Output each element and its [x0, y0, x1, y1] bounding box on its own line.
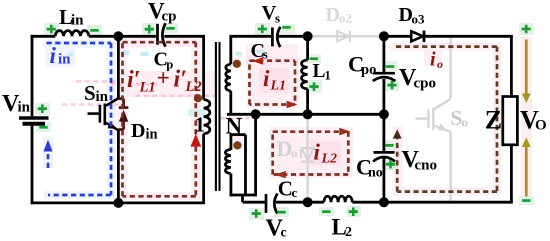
diode Do2 (inactive, gray): [337, 31, 350, 42]
plus L2: [349, 207, 358, 216]
svg-text:D: D: [131, 120, 145, 142]
svg-text:no: no: [368, 166, 383, 181]
plus Cc: [252, 209, 261, 218]
svg-text:2: 2: [345, 225, 352, 240]
minus Vcp: [166, 27, 174, 30]
svg-text:1: 1: [195, 113, 206, 137]
svg-text:s: s: [275, 11, 280, 26]
wire gray segment of top rail through Do2: [307, 35, 384, 37]
wire gray branch of So: [435, 36, 451, 202]
svg-text:L2: L2: [321, 152, 338, 167]
arrow i_in (blue): [44, 140, 53, 152]
wire secondary top branch: [229, 36, 232, 64]
node junction top Cpo: [379, 31, 389, 41]
minus Vs: [282, 26, 290, 29]
svg-text:L1: L1: [139, 80, 156, 96]
svg-text:p: p: [166, 58, 173, 72]
plus Vin: [38, 104, 47, 113]
plus L1: [309, 82, 318, 91]
transistor Sin: [88, 98, 119, 130]
wire bottom rail secondary: [243, 201, 266, 204]
polarity dot secondary upper: [233, 60, 241, 68]
wire Cno branch: [382, 114, 385, 151]
arrow i_L1 top-left: [252, 57, 263, 65]
label i'L1 + i'L2 (maroon): [127, 66, 202, 96]
label i_L2 (maroon): [314, 140, 338, 167]
svg-text:S: S: [84, 81, 96, 105]
wire bottom rail primary side: [31, 201, 205, 204]
minus Cc: [277, 211, 285, 214]
svg-text:S: S: [451, 106, 463, 130]
wire Cpo branch: [382, 36, 385, 72]
minus Cpo: [386, 65, 394, 68]
battery Vin: [19, 118, 49, 124]
svg-text:cp: cp: [162, 9, 177, 25]
svg-text:D: D: [326, 4, 340, 26]
wire top rail secondary: [229, 35, 271, 38]
node junction mid Cpo/Cno: [379, 109, 389, 119]
loop i_L1 (dark red dashed): [250, 61, 296, 105]
svg-text:N: N: [226, 114, 243, 139]
node junction top L1: [303, 31, 313, 41]
label So (gray): [451, 106, 469, 130]
svg-text:Z: Z: [485, 106, 502, 135]
wire mid rail: [227, 113, 384, 116]
plus Cno: [386, 160, 395, 169]
svg-text:O: O: [535, 118, 547, 134]
loop i_L2 (dark red dashed): [273, 132, 349, 175]
halo around i_L2 loop: [269, 127, 353, 178]
wire L1 branch: [306, 36, 309, 60]
svg-text:in: in: [18, 100, 31, 116]
svg-text:L1: L1: [270, 79, 287, 94]
diode Din (body diode of Sin): [118, 99, 128, 130]
arrow Vo bottom (olive): [522, 138, 531, 197]
svg-text:L2: L2: [185, 79, 202, 95]
svg-text:1: 1: [325, 69, 331, 83]
wire primary branch: [202, 36, 205, 99]
svg-text:i: i: [314, 140, 321, 165]
node junction bottom Do1: [303, 197, 313, 207]
transformer core: [216, 42, 220, 191]
polarity dot secondary lower: [233, 141, 241, 149]
svg-text:c: c: [281, 226, 287, 241]
svg-text:po: po: [361, 62, 376, 78]
plus Lin: [47, 25, 56, 34]
plus Vs: [258, 25, 267, 34]
svg-text:i: i: [430, 49, 436, 71]
svg-text:in: in: [96, 89, 109, 105]
loop i_in (blue dashed): [47, 43, 112, 195]
diode Do1 (inactive, gray): [301, 148, 314, 162]
halo around i_L1 loop: [247, 57, 299, 108]
svg-text:o: o: [462, 115, 469, 130]
node junction bottom Cno: [379, 197, 389, 207]
minus L1: [310, 57, 318, 60]
svg-text:i′: i′: [127, 67, 140, 93]
minus Cno: [385, 144, 393, 147]
arrow i_L2 bottom-left: [275, 171, 286, 179]
minus Vin: [39, 126, 47, 129]
svg-text:i: i: [50, 43, 57, 68]
svg-text:o2: o2: [339, 11, 352, 26]
loop i'L1+i'L2 (dark red dashed): [123, 42, 196, 196]
plus Vcp: [145, 25, 154, 34]
label i_L1 (maroon): [263, 66, 286, 94]
capacitor Cc (Vc): [266, 194, 277, 214]
wire Z branch: [510, 36, 513, 97]
wire top rail left: [31, 35, 56, 38]
arrow i'L1+i'L2 (red): [191, 134, 202, 147]
label Do1 (gray): [277, 136, 305, 161]
transformer secondary lower winding N: [225, 150, 230, 174]
svg-text:s: s: [263, 47, 268, 62]
diode Do3: [411, 31, 424, 42]
svg-text:cno: cno: [415, 158, 438, 174]
label Do2 (gray): [326, 4, 353, 26]
polarity dot primary: [194, 94, 202, 102]
svg-text:in: in: [146, 127, 158, 143]
svg-text:o: o: [437, 57, 443, 71]
inductor L2: [324, 196, 352, 202]
halo around i_o loop: [391, 36, 532, 198]
node junction mid N: [251, 109, 261, 119]
wire Sin branch vertical: [117, 36, 120, 98]
minus Lin: [90, 29, 98, 32]
svg-text:cpo: cpo: [414, 76, 437, 92]
plus Cpo: [387, 81, 396, 90]
transformer primary winding: [204, 100, 210, 134]
transistor So (inactive, gray): [416, 108, 451, 132]
wire gray branch of Do1: [306, 114, 308, 202]
node junction bottom Sin: [113, 198, 123, 208]
minus Vo: [522, 199, 530, 202]
svg-text:o1: o1: [291, 146, 304, 161]
loop i_o (dark red dashed): [396, 47, 497, 192]
arrow i_L2 top-right: [339, 128, 350, 136]
transformer secondary upper winding: [226, 64, 231, 91]
capacitor Cp (Vcp): [158, 23, 166, 46]
capacitor Cpo (Vcpo): [373, 73, 396, 81]
svg-text:c: c: [292, 185, 298, 200]
inductor L1: [301, 60, 307, 89]
pale green halos behind polarity marks: [35, 23, 534, 220]
pink ghost dashed artifacts: [62, 82, 250, 119]
minus L2: [322, 210, 330, 213]
svg-text:i: i: [263, 66, 270, 91]
load Z: [503, 97, 518, 145]
wire top rail output: [384, 35, 411, 38]
arrow i_L1 bottom-right: [287, 101, 298, 109]
node junction mid L1/Do1: [303, 109, 313, 119]
inductor Lin: [55, 31, 89, 37]
halo around i_in loop (blue artifacts): [43, 40, 116, 200]
svg-text:o3: o3: [412, 12, 426, 27]
svg-text:D: D: [277, 136, 293, 161]
arrow Vo top (olive): [522, 40, 531, 104]
label i_o (maroon): [430, 49, 443, 72]
wire left vertical (Vin branch): [31, 35, 34, 116]
polarity marks green: [38, 25, 531, 218]
halo around loop1 (pink artifacts): [118, 38, 298, 200]
capacitor Cno (Vcno): [373, 152, 395, 161]
cyan ghost artifacts: [68, 50, 265, 116]
svg-text:in: in: [58, 52, 71, 68]
label i_in (blue): [50, 43, 72, 68]
arrow i_o (up, dark brown): [393, 129, 402, 138]
wire N winding link: [230, 114, 256, 202]
capacitor Cs (Vs): [272, 27, 280, 47]
svg-text:in: in: [71, 13, 84, 29]
node junction top Sin: [113, 31, 123, 41]
plus Vo: [522, 25, 531, 34]
